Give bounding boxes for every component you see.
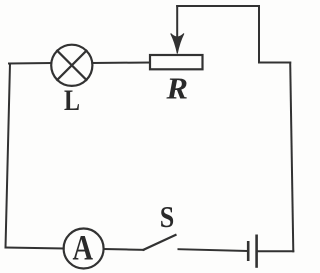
wire: left rail xyxy=(6,64,11,248)
wire: jog horizontal to right rail xyxy=(259,62,290,64)
wire: jog vertical drop xyxy=(258,6,260,63)
wire: lamp to rheostat xyxy=(92,62,150,65)
wire: right rail xyxy=(290,63,293,252)
wire: switch to battery xyxy=(179,249,247,251)
lamp L1 cross stroke 2 xyxy=(57,51,86,80)
svg-text:L: L xyxy=(64,84,80,117)
svg-text:A: A xyxy=(73,228,94,268)
lamp L1 cross stroke 1 xyxy=(57,51,86,80)
wire: top jog horizontal xyxy=(177,5,259,7)
wire: top-left horizontal to lamp xyxy=(9,62,51,65)
battery BT1 negative plate (short bar) xyxy=(247,242,250,259)
battery BT1 positive plate (long bar) xyxy=(255,236,258,267)
ammeter A1 (circle) xyxy=(64,229,104,269)
wire: ammeter to switch pivot xyxy=(104,248,144,251)
wire: rheostat wiper vertical stem xyxy=(176,6,178,38)
wire: bottom left horizontal to ammeter xyxy=(6,248,64,249)
resistor R (rheostat body) xyxy=(150,55,203,69)
lamp L1 (circle) xyxy=(51,45,92,86)
svg-text:S: S xyxy=(160,199,175,234)
svg-text:R: R xyxy=(165,71,188,106)
wire: bottom right, battery to right rail xyxy=(258,250,294,252)
rheostat wiper arrowhead xyxy=(171,34,184,54)
switch S blade (open) xyxy=(144,235,176,250)
